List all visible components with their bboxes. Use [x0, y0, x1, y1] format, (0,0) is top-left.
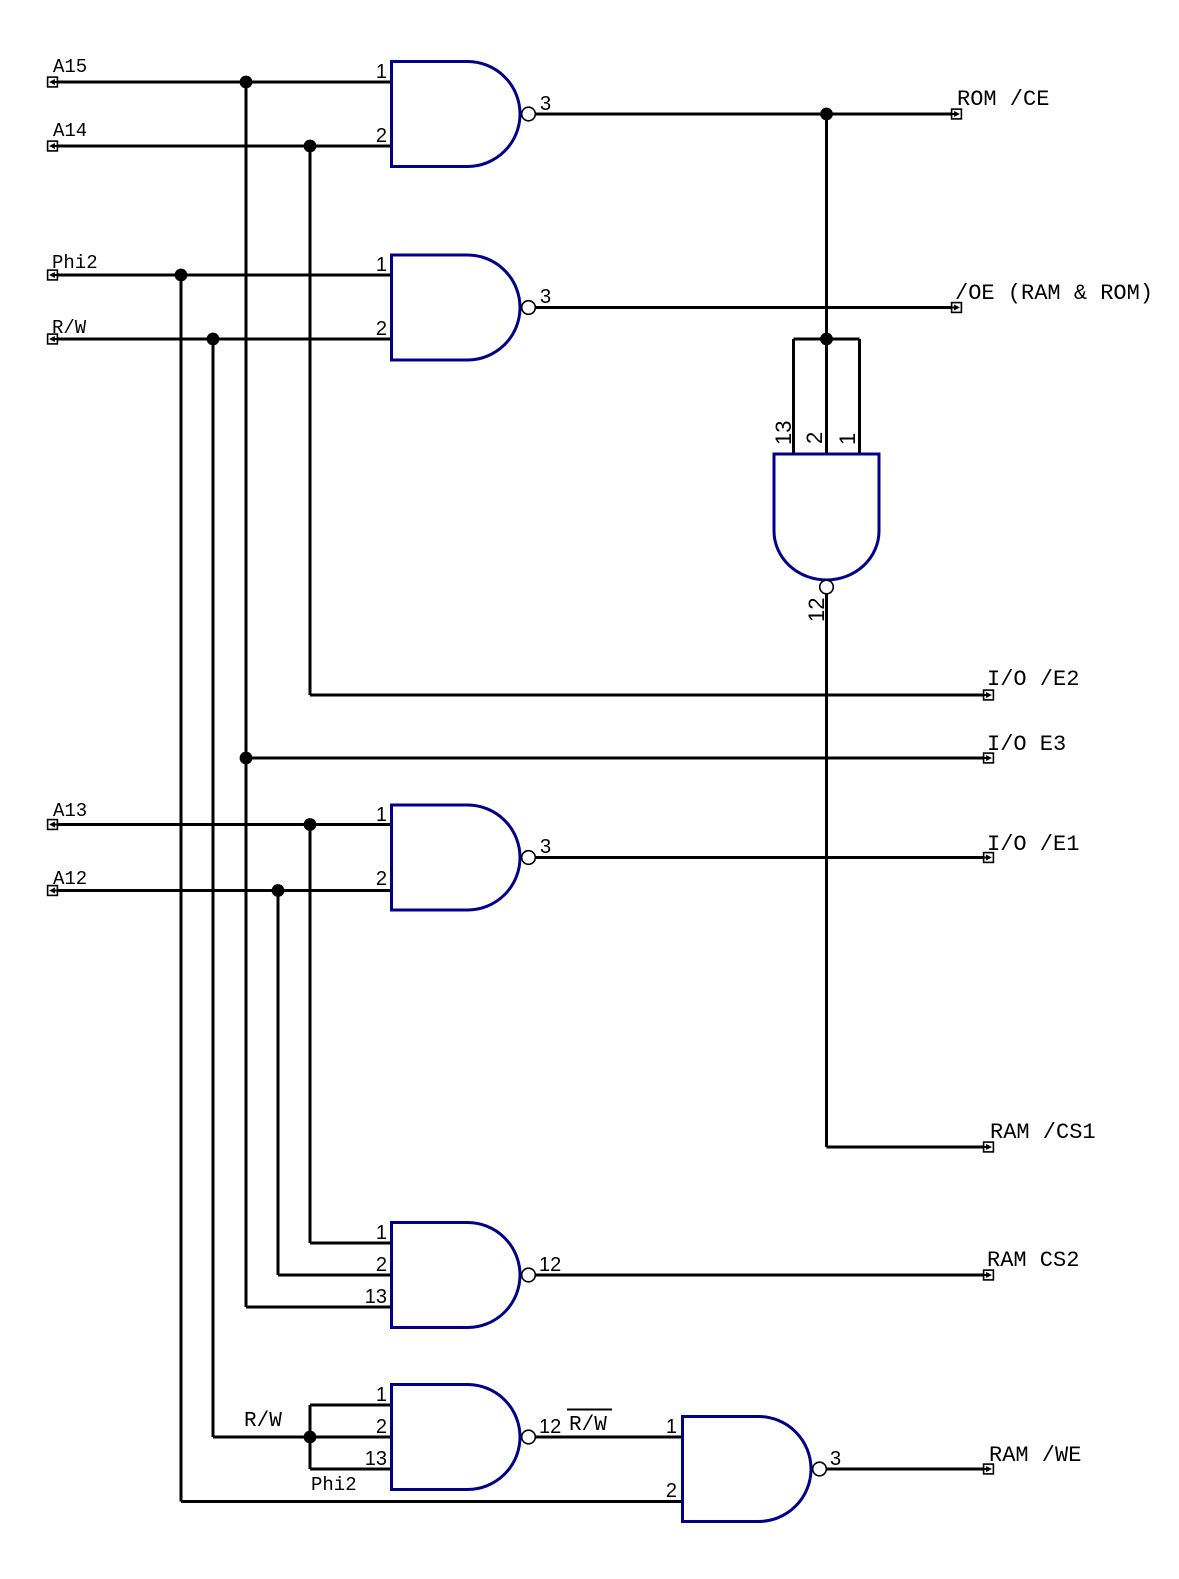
junction ROM /CE / U7 input drop — [820, 108, 833, 121]
wire I/O E3 horizontal run — [246, 757, 989, 760]
wire U6 output to RAM /WE terminal — [826, 1468, 989, 1471]
junction Phi2 / vertical bus — [175, 269, 188, 282]
wire A14 net, input run to U1 pin2 — [53, 145, 392, 148]
terminal input Phi2 — [48, 270, 58, 280]
nand gate U4 (3-input -> RAM CS2) — [392, 1223, 536, 1328]
svg-text:3: 3 — [540, 286, 551, 308]
terminal output RAM CS2 — [984, 1270, 994, 1280]
nand gate U3 (A13,A12 -> I/O /E1) — [392, 805, 536, 910]
wire U7 pin1 drop — [858, 339, 861, 454]
svg-text:12: 12 — [539, 1416, 561, 1438]
terminal input R/W — [48, 334, 58, 344]
svg-text:1: 1 — [376, 254, 387, 276]
terminal output ROM /CE — [952, 109, 962, 119]
nand gate U7 inverter (ROM /CE -> RAM /CS1) — [774, 454, 879, 594]
wire U4 output to RAM CS2 terminal — [535, 1274, 989, 1277]
svg-text:/OE (RAM & ROM): /OE (RAM & ROM) — [955, 281, 1153, 306]
svg-text:2: 2 — [376, 125, 387, 147]
wire RAM /CS1 horizontal run — [827, 1146, 989, 1149]
svg-text:3: 3 — [540, 836, 551, 858]
junction A12 / vertical — [272, 884, 285, 897]
junction R/W / vertical bus — [207, 333, 220, 346]
svg-text:1: 1 — [376, 804, 387, 826]
nand gate U2 (Phi2,R/W -> /OE) — [392, 255, 536, 360]
svg-text:A12: A12 — [53, 868, 87, 890]
wire U5 input tie bracket — [309, 1405, 312, 1469]
svg-text:1: 1 — [376, 1384, 387, 1406]
svg-text:RAM /WE: RAM /WE — [989, 1443, 1081, 1468]
svg-text:Phi2: Phi2 — [311, 1474, 357, 1496]
wire R/W vertical bus segment — [212, 339, 215, 1437]
wire U1 output to ROM /CE terminal — [535, 113, 957, 116]
wire R/W net, input run to U2 pin2 — [53, 338, 392, 341]
svg-text:R/W: R/W — [569, 1414, 607, 1437]
wire U3 output to I/O /E1 terminal — [535, 856, 989, 859]
svg-text:13: 13 — [365, 1448, 387, 1470]
wire Phi2 to U6 pin2 — [181, 1500, 683, 1503]
svg-text:1: 1 — [376, 1222, 387, 1244]
wire A15 net, input run to U1 pin1 — [53, 81, 392, 84]
junction R/W / U5 tie bracket — [304, 1431, 317, 1444]
svg-text:1: 1 — [666, 1416, 677, 1438]
terminal output RAM /WE — [984, 1464, 994, 1474]
svg-text:RAM CS2: RAM CS2 — [987, 1248, 1079, 1273]
wire ROM /CE vertical down to U7 inputs — [825, 114, 828, 339]
svg-text:1: 1 — [835, 433, 860, 445]
svg-text:3: 3 — [540, 93, 551, 115]
wire U7 pin13 drop — [792, 339, 795, 454]
svg-text:2: 2 — [376, 1254, 387, 1276]
wire U4 pin13 stub — [246, 1306, 392, 1309]
wire Phi2 net, input run to U2 pin1 — [53, 274, 392, 277]
nand gate U1 (A15,A14 -> ROM /CE) — [392, 62, 536, 167]
svg-text:A13: A13 — [53, 800, 87, 822]
svg-text:Phi2: Phi2 — [52, 252, 98, 274]
wire A12 net, input run to U3 pin2 — [53, 889, 392, 892]
terminal input A13 — [48, 820, 58, 830]
svg-text:R/W: R/W — [244, 1410, 282, 1433]
terminal output I/O /E1 — [984, 853, 994, 863]
wire A13 net, input run to U3 pin1 — [53, 823, 392, 826]
wire A13 vertical segment to U4 pin1 — [309, 825, 312, 1244]
svg-text:13: 13 — [771, 421, 796, 445]
junction A15 / vertical bus — [240, 76, 253, 89]
svg-text:ROM /CE: ROM /CE — [957, 87, 1049, 112]
svg-text:13: 13 — [365, 1286, 387, 1308]
terminal input A12 — [48, 886, 58, 896]
terminal output I/O /E2 — [984, 690, 994, 700]
wire U7 pin2 drop — [825, 339, 828, 454]
svg-text:3: 3 — [830, 1448, 841, 1470]
wire A14 vertical segment to I/O /E2 — [309, 146, 312, 695]
junction A15 bus / I/O E3 — [240, 752, 253, 765]
wire U7 input tie bar — [794, 338, 860, 341]
svg-text:2: 2 — [802, 432, 827, 444]
svg-text:1: 1 — [376, 61, 387, 83]
wire A15 vertical bus segment — [245, 82, 248, 1307]
svg-text:2: 2 — [666, 1480, 677, 1502]
wire I/O /E2 horizontal run — [310, 694, 989, 697]
svg-text:I/O /E1: I/O /E1 — [987, 832, 1079, 857]
svg-text:R/W: R/W — [52, 317, 87, 339]
svg-text:A14: A14 — [53, 120, 87, 142]
label net /R/W (R/W with overline) — [567, 1410, 612, 1438]
svg-text:I/O /E2: I/O /E2 — [987, 667, 1079, 692]
junction A13 / vertical — [304, 818, 317, 831]
terminal output I/O E3 — [984, 753, 994, 763]
wire R/W to U5 pin2 — [213, 1436, 392, 1439]
svg-text:12: 12 — [804, 598, 829, 622]
svg-text:2: 2 — [376, 868, 387, 890]
wire Phi2 vertical bus segment — [180, 275, 183, 1502]
nand gate U5 inverter (R/W -> /R/W) — [392, 1385, 536, 1490]
svg-text:I/O E3: I/O E3 — [987, 732, 1066, 757]
svg-text:2: 2 — [376, 1416, 387, 1438]
terminal output RAM /CS1 — [984, 1142, 994, 1152]
wire U4 pin1 stub — [310, 1242, 392, 1245]
svg-text:12: 12 — [539, 1254, 561, 1276]
svg-text:2: 2 — [376, 318, 387, 340]
nand gate U6 (/R/W,Phi2 -> RAM /WE) — [683, 1417, 827, 1522]
wire U7 output vertical down — [825, 594, 828, 1147]
wire U5 output /R/W to U6 pin1 — [535, 1436, 683, 1439]
svg-text:A15: A15 — [53, 56, 87, 78]
junction A14 / vertical — [304, 140, 317, 153]
wire U5 pin13 stub — [310, 1468, 392, 1471]
wire A12 vertical segment to U4 pin2 — [277, 891, 280, 1276]
wire U2 output to /OE terminal — [535, 306, 957, 309]
terminal input A14 — [48, 141, 58, 151]
junction U7 tie bar / pin2 drop — [820, 333, 833, 346]
terminal output /OE (RAM & ROM) — [952, 303, 962, 313]
terminal input A15 — [48, 77, 58, 87]
wire U4 pin2 stub — [278, 1274, 392, 1277]
svg-text:RAM /CS1: RAM /CS1 — [990, 1120, 1096, 1145]
wire U5 pin1 stub — [310, 1404, 392, 1407]
